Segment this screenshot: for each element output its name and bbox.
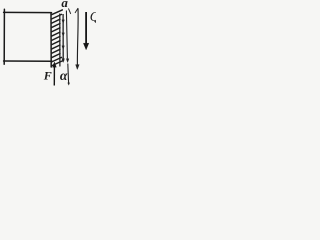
wall strip left edge <box>50 13 52 67</box>
svg-text:a: a <box>61 0 68 10</box>
wire rectangle bottom edge <box>4 60 52 62</box>
wire rectangle top edge <box>4 11 52 13</box>
gap flow arrows column <box>62 14 65 63</box>
wall hatching <box>51 10 63 66</box>
leader tick under label a <box>69 9 71 14</box>
svg-text:F: F <box>43 68 52 82</box>
wire rectangle left edge <box>3 9 5 64</box>
svg-text:α: α <box>60 68 68 83</box>
force arrow F (upward) <box>53 62 57 86</box>
weight arrow Q <box>83 12 88 50</box>
svg-text:Q: Q <box>90 9 96 24</box>
plate line upper arrow <box>66 11 69 63</box>
plate line lower arrow <box>68 64 70 86</box>
right guide arrow top tick <box>75 8 78 12</box>
right guide arrow <box>76 9 80 70</box>
wall strip right edge <box>59 14 61 66</box>
